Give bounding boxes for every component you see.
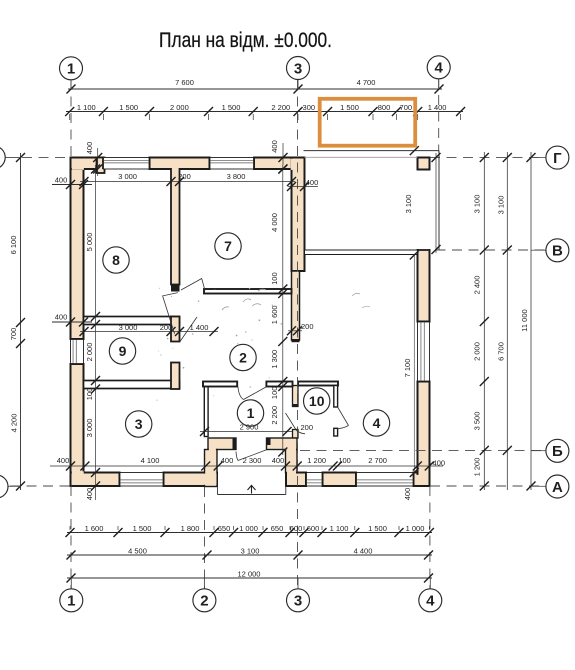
svg-text:600: 600 bbox=[290, 524, 303, 533]
svg-text:7: 7 bbox=[224, 238, 232, 254]
svg-text:3 800: 3 800 bbox=[227, 172, 246, 181]
svg-text:1: 1 bbox=[67, 593, 75, 610]
svg-text:100: 100 bbox=[270, 387, 279, 400]
svg-text:200: 200 bbox=[178, 172, 191, 181]
svg-text:200: 200 bbox=[301, 423, 314, 432]
svg-text:4: 4 bbox=[373, 415, 381, 431]
svg-text:3 100: 3 100 bbox=[241, 546, 260, 555]
svg-text:650: 650 bbox=[218, 524, 231, 533]
svg-text:400: 400 bbox=[55, 313, 68, 322]
svg-text:2 200: 2 200 bbox=[271, 103, 290, 112]
svg-text:2 700: 2 700 bbox=[368, 456, 387, 465]
svg-text:300: 300 bbox=[303, 103, 316, 112]
svg-text:1 600: 1 600 bbox=[270, 305, 279, 324]
svg-text:6 700: 6 700 bbox=[497, 342, 506, 361]
svg-text:Г: Г bbox=[553, 150, 562, 167]
svg-text:3: 3 bbox=[135, 416, 143, 432]
svg-text:6 100: 6 100 bbox=[9, 236, 18, 255]
svg-text:1 100: 1 100 bbox=[77, 103, 96, 112]
svg-text:400: 400 bbox=[85, 142, 94, 155]
svg-text:12 000: 12 000 bbox=[238, 569, 261, 578]
svg-text:100: 100 bbox=[85, 388, 94, 401]
svg-text:3 100: 3 100 bbox=[473, 195, 482, 214]
svg-text:650: 650 bbox=[271, 524, 284, 533]
svg-text:4 100: 4 100 bbox=[141, 456, 160, 465]
svg-text:1 400: 1 400 bbox=[428, 103, 447, 112]
svg-text:1 500: 1 500 bbox=[133, 524, 152, 533]
svg-text:1 500: 1 500 bbox=[222, 103, 241, 112]
svg-text:1 500: 1 500 bbox=[119, 103, 138, 112]
svg-text:2 300: 2 300 bbox=[243, 456, 262, 465]
svg-text:400: 400 bbox=[57, 456, 70, 465]
svg-text:700: 700 bbox=[400, 103, 413, 112]
svg-text:2 000: 2 000 bbox=[170, 103, 189, 112]
svg-text:1 000: 1 000 bbox=[406, 524, 425, 533]
svg-text:4 000: 4 000 bbox=[270, 213, 279, 232]
svg-text:3 000: 3 000 bbox=[118, 172, 137, 181]
svg-text:В: В bbox=[552, 243, 563, 260]
svg-text:400: 400 bbox=[85, 488, 94, 501]
svg-text:8: 8 bbox=[112, 252, 120, 268]
svg-text:400: 400 bbox=[55, 176, 68, 185]
svg-text:2: 2 bbox=[239, 349, 247, 365]
svg-text:4 700: 4 700 bbox=[357, 78, 376, 87]
svg-text:А: А bbox=[552, 479, 563, 496]
svg-text:4: 4 bbox=[435, 60, 444, 77]
svg-text:400: 400 bbox=[433, 459, 446, 468]
svg-text:11 000: 11 000 bbox=[520, 309, 529, 331]
svg-text:1 000: 1 000 bbox=[239, 524, 258, 533]
svg-text:2 400: 2 400 bbox=[473, 276, 482, 295]
svg-text:3 100: 3 100 bbox=[497, 196, 506, 215]
svg-text:400: 400 bbox=[403, 488, 412, 501]
svg-text:5 000: 5 000 bbox=[85, 233, 94, 252]
svg-text:7 600: 7 600 bbox=[175, 78, 194, 87]
svg-text:1 200: 1 200 bbox=[473, 458, 482, 477]
svg-text:4 400: 4 400 bbox=[354, 546, 373, 555]
svg-text:1: 1 bbox=[247, 405, 255, 421]
svg-text:200: 200 bbox=[160, 323, 173, 332]
svg-text:3: 3 bbox=[294, 60, 302, 77]
svg-text:1 500: 1 500 bbox=[340, 103, 359, 112]
svg-text:2: 2 bbox=[200, 593, 208, 610]
svg-text:1 600: 1 600 bbox=[85, 524, 104, 533]
svg-text:400: 400 bbox=[270, 140, 279, 153]
svg-text:400: 400 bbox=[272, 456, 285, 465]
svg-text:100: 100 bbox=[338, 456, 351, 465]
svg-text:1 200: 1 200 bbox=[307, 456, 326, 465]
svg-text:7 100: 7 100 bbox=[403, 359, 412, 378]
svg-text:Б: Б bbox=[552, 443, 563, 460]
svg-text:3 100: 3 100 bbox=[404, 195, 413, 214]
svg-text:800: 800 bbox=[378, 103, 391, 112]
svg-text:2 000: 2 000 bbox=[473, 342, 482, 361]
svg-text:1: 1 bbox=[67, 61, 75, 78]
svg-text:2 200: 2 200 bbox=[270, 406, 279, 425]
svg-text:3 000: 3 000 bbox=[119, 323, 138, 332]
svg-text:3 500: 3 500 bbox=[473, 412, 482, 431]
svg-text:100: 100 bbox=[270, 272, 279, 285]
svg-text:200: 200 bbox=[301, 322, 314, 331]
svg-text:1 500: 1 500 bbox=[368, 524, 387, 533]
svg-text:1 100: 1 100 bbox=[330, 524, 349, 533]
svg-text:2 000: 2 000 bbox=[85, 343, 94, 362]
svg-text:9: 9 bbox=[119, 343, 127, 359]
svg-text:2 900: 2 900 bbox=[240, 423, 259, 432]
svg-text:1 800: 1 800 bbox=[181, 524, 200, 533]
svg-text:4 500: 4 500 bbox=[128, 546, 147, 555]
svg-text:4: 4 bbox=[426, 593, 435, 610]
svg-text:План на відм. ±0.000.: План на відм. ±0.000. bbox=[159, 28, 332, 52]
svg-text:400: 400 bbox=[306, 178, 319, 187]
svg-text:1 400: 1 400 bbox=[190, 323, 209, 332]
svg-text:600: 600 bbox=[307, 524, 320, 533]
svg-text:700: 700 bbox=[9, 328, 18, 341]
svg-text:3 000: 3 000 bbox=[85, 419, 94, 438]
svg-text:400: 400 bbox=[221, 456, 234, 465]
svg-text:1 300: 1 300 bbox=[270, 350, 279, 369]
svg-text:3: 3 bbox=[294, 593, 302, 610]
svg-text:4 200: 4 200 bbox=[10, 414, 19, 433]
svg-text:10: 10 bbox=[309, 393, 325, 409]
